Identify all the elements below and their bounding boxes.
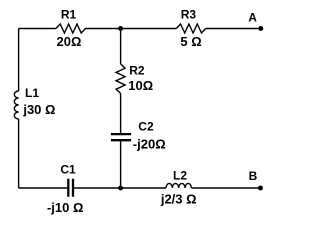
svg-text:C1: C1 [60, 162, 76, 176]
svg-text:10Ω: 10Ω [128, 78, 153, 93]
svg-text:R3: R3 [181, 8, 197, 22]
svg-text:L2: L2 [173, 168, 187, 182]
svg-text:B: B [249, 169, 258, 183]
svg-text:R1: R1 [61, 8, 77, 22]
svg-text:L1: L1 [25, 86, 39, 100]
svg-text:20Ω: 20Ω [57, 34, 82, 49]
svg-text:5 Ω: 5 Ω [180, 34, 201, 49]
svg-text:-j20Ω: -j20Ω [133, 136, 166, 151]
svg-text:-j10 Ω: -j10 Ω [47, 200, 83, 215]
svg-text:C2: C2 [138, 120, 154, 134]
svg-text:j30 Ω: j30 Ω [22, 102, 55, 117]
svg-text:R2: R2 [129, 63, 145, 77]
svg-text:j2/3 Ω: j2/3 Ω [160, 191, 197, 206]
svg-text:A: A [248, 11, 257, 25]
